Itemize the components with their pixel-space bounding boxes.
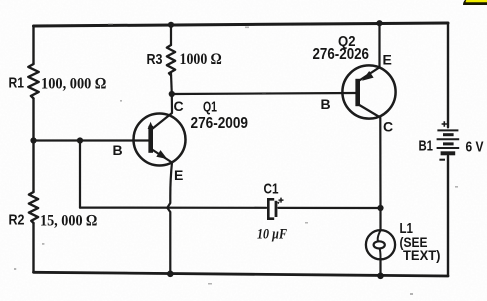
capacitor C1 — [268, 198, 283, 219]
svg-text:1000 Ω: 1000 Ω — [180, 51, 222, 68]
wire Q1 emitter down — [167, 163, 172, 274]
svg-text:E: E — [383, 52, 392, 68]
junction node Q2 emitter top — [376, 20, 382, 26]
resistor R2 — [29, 192, 38, 223]
wire C1 left — [80, 207, 266, 209]
wire R3 bottom lead to node C — [170, 73, 173, 94]
wire R3 top lead — [170, 25, 172, 45]
svg-text:6 V: 6 V — [466, 139, 484, 156]
yellow highlight tab top right — [463, 0, 487, 5]
wire Q1 collector — [152, 94, 172, 129]
resistor R1 — [28, 64, 38, 98]
svg-text:B1: B1 — [419, 138, 434, 155]
svg-text:10 µF: 10 µF — [257, 227, 287, 243]
wire left rail upper — [32, 26, 34, 64]
svg-text:R2: R2 — [9, 212, 25, 229]
wire lamp top lead — [379, 208, 381, 230]
svg-text:B: B — [321, 96, 331, 112]
junction node C1 right / Q2 collector — [377, 205, 383, 211]
wire bottom rail — [34, 272, 449, 276]
wire divider drop x=80 — [79, 141, 81, 208]
wire lamp bottom lead — [379, 259, 381, 276]
svg-text:15, 000 Ω: 15, 000 Ω — [40, 213, 97, 230]
svg-text:276-2009: 276-2009 — [191, 115, 249, 132]
junction node emitter / bottom rail — [167, 271, 174, 278]
svg-text:E: E — [174, 167, 183, 183]
junction node base/divider — [77, 137, 83, 143]
svg-text:R3: R3 — [147, 51, 163, 68]
wire battery bottom lead — [447, 156, 449, 276]
wire battery top lead — [447, 23, 449, 127]
svg-text:R1: R1 — [9, 75, 25, 92]
svg-text:C: C — [174, 98, 184, 114]
junction node left rail / Q1 base — [30, 137, 36, 143]
junction node R3 top — [168, 22, 174, 28]
transistor Q1 — [134, 114, 186, 166]
battery B1 — [437, 121, 460, 159]
svg-text:276-2026: 276-2026 — [313, 46, 370, 63]
resistor R3 — [167, 45, 175, 75]
wire node C to Q2 base — [172, 93, 356, 94]
wire Q2 emitter up — [378, 23, 380, 67]
svg-text:100, 000 Ω: 100, 000 Ω — [41, 76, 106, 93]
transistor Q2 — [342, 65, 395, 118]
svg-text:TEXT): TEXT) — [403, 248, 441, 263]
wire top rail — [34, 23, 449, 26]
wire Q2 collector down — [379, 118, 381, 209]
wire left rail lower — [32, 223, 34, 272]
svg-text:B: B — [113, 142, 123, 158]
wire left rail middle — [32, 98, 34, 192]
lamp L1 — [366, 230, 395, 259]
wire C1 right — [279, 207, 381, 209]
wire Q1 base from left rail — [34, 139, 149, 141]
junction node C (R3/Q1 collector/Q2 base) — [169, 91, 175, 97]
svg-text:C: C — [383, 119, 393, 135]
svg-text:C1: C1 — [264, 181, 279, 198]
svg-text:Q1: Q1 — [203, 100, 217, 116]
junction node lamp / bottom rail — [377, 273, 384, 280]
